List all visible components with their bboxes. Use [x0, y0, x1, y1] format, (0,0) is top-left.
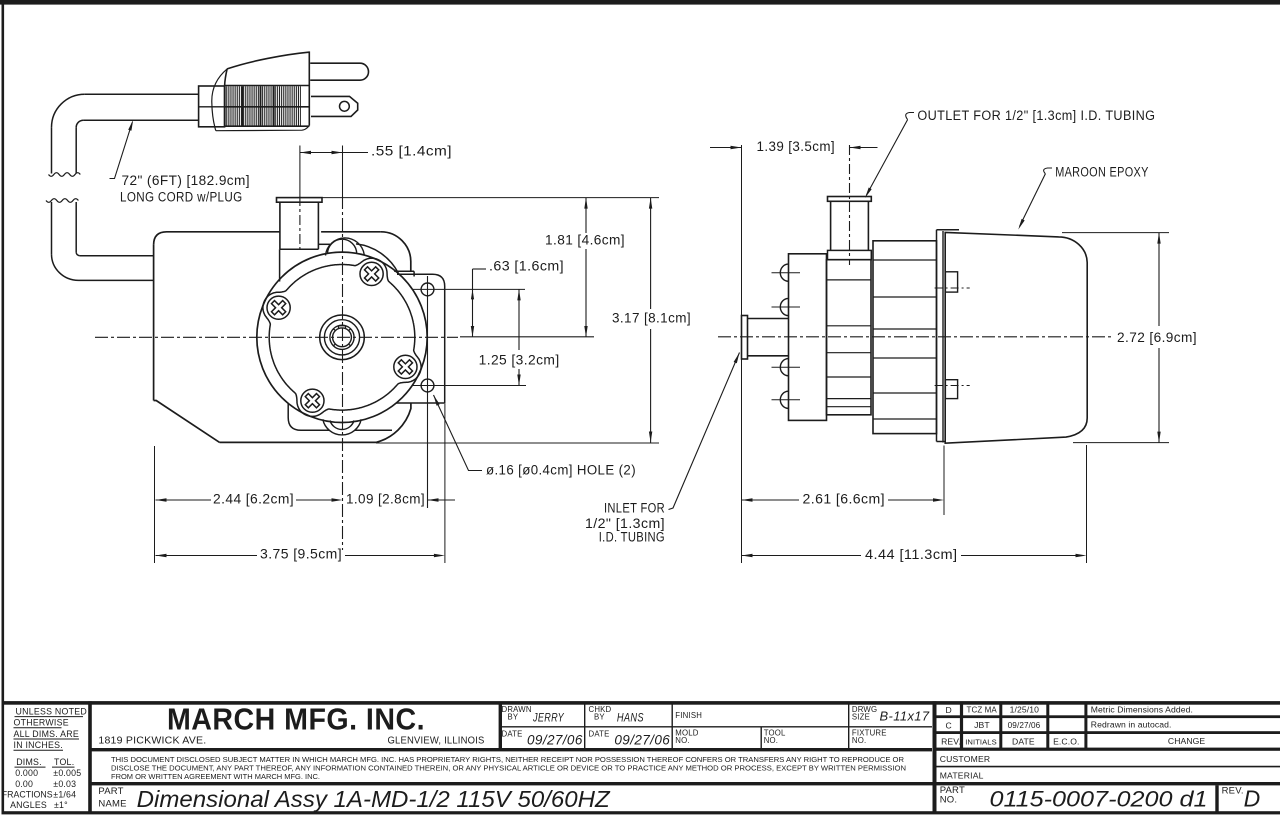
svg-text:GLENVIEW, ILLINOIS: GLENVIEW, ILLINOIS	[388, 736, 485, 747]
port centerline side	[849, 145, 851, 265]
svg-text:BY: BY	[508, 712, 519, 721]
rear pump housing edges	[279, 249, 281, 281]
svg-text:JERRY: JERRY	[532, 713, 565, 725]
dimension 1.25 line	[518, 289, 520, 350]
screw 3	[301, 389, 324, 412]
pump motor body front outline	[154, 232, 280, 245]
dimension .55 line	[300, 152, 343, 154]
extension housing bottom	[1073, 442, 1169, 444]
epoxy housing side	[945, 232, 1087, 443]
svg-text:0.000: 0.000	[15, 768, 38, 778]
bearing boss arcs bottom	[323, 419, 361, 435]
svg-text:INITIALS: INITIALS	[965, 737, 997, 746]
pump mid section side	[827, 260, 872, 415]
extension port top	[322, 197, 659, 199]
bearing boss arcs top	[326, 238, 365, 256]
power plug	[199, 86, 225, 127]
wire cord upper segment	[85, 93, 199, 95]
svg-text:TOL.: TOL.	[54, 757, 74, 767]
svg-text:MAROON EPOXY: MAROON EPOXY	[1055, 165, 1149, 180]
svg-text:±0.03: ±0.03	[53, 779, 76, 789]
screw 1	[360, 262, 383, 285]
svg-text:72" (6FT) [182.9cm]: 72" (6FT) [182.9cm]	[122, 173, 251, 188]
svg-text:UNLESS NOTED: UNLESS NOTED	[16, 707, 87, 717]
svg-text:09/27/06: 09/27/06	[527, 733, 583, 748]
leader inlet	[669, 353, 740, 510]
extension body bottom	[376, 442, 659, 444]
drawing border left	[2, 0, 5, 814]
extension housing top	[1062, 232, 1169, 234]
dimension 2.72 line	[1158, 233, 1160, 326]
svg-text:HANS: HANS	[617, 713, 644, 725]
svg-text:REV.: REV.	[1222, 786, 1244, 797]
extension hole top line	[413, 288, 525, 290]
leader hole dia	[434, 395, 483, 471]
svg-text:09/27/06: 09/27/06	[1008, 721, 1041, 730]
dimension 1.09 line	[428, 498, 439, 501]
centerline horizontal side	[718, 336, 1112, 338]
svg-text:DIMS.: DIMS.	[16, 757, 42, 767]
svg-text:D: D	[1244, 786, 1261, 812]
svg-text:FINISH: FINISH	[675, 711, 702, 720]
svg-text:FROM OR WRITTEN AGREEMENT WITH: FROM OR WRITTEN AGREEMENT WITH MARCH MFG…	[111, 772, 320, 781]
svg-text:PART: PART	[98, 786, 123, 797]
mounting hole top	[421, 283, 434, 296]
outlet port side view	[828, 250, 872, 259]
svg-text:Dimensional Assy 1A-MD-1/2: Dimensional Assy 1A-MD-1/2 115V 50/60HZ	[137, 786, 612, 812]
volute wavy contour	[263, 258, 421, 416]
hole centerline vertical	[427, 276, 429, 508]
shaft hub	[320, 315, 365, 360]
rev table grid	[935, 715, 1280, 718]
svg-text:ALL DIMS. ARE: ALL DIMS. ARE	[14, 729, 80, 739]
svg-text:1/25/10: 1/25/10	[1010, 705, 1039, 715]
svg-text:3.75 [9.5cm]: 3.75 [9.5cm]	[260, 547, 342, 562]
svg-text:MATERIAL: MATERIAL	[940, 771, 984, 781]
drawing border top	[0, 0, 1280, 5]
svg-text:0.00: 0.00	[15, 779, 33, 789]
svg-text:I.D. TUBING: I.D. TUBING	[599, 530, 665, 545]
centerline horizontal front	[95, 336, 458, 338]
svg-text:1.81 [4.6cm]: 1.81 [4.6cm]	[545, 233, 625, 248]
extension left lower	[154, 446, 156, 563]
dimension 2.61 line	[742, 498, 753, 501]
mounting tabs side	[945, 272, 957, 292]
svg-text:DATE: DATE	[502, 730, 523, 739]
dimension 4.44 line	[742, 554, 753, 557]
svg-text:LONG CORD w/PLUG: LONG CORD w/PLUG	[120, 190, 243, 205]
cord break squiggle lower	[46, 199, 78, 203]
motor stator section side	[873, 241, 937, 434]
volute scroll arc	[356, 244, 398, 273]
svg-text:Metric Dimensions Added.: Metric Dimensions Added.	[1091, 704, 1193, 714]
mounting plate	[396, 274, 445, 403]
svg-text:IN INCHES.: IN INCHES.	[14, 740, 63, 750]
dimension 3.75 line	[156, 554, 167, 557]
dimension 3.17 line	[650, 198, 652, 309]
title cells grid	[499, 703, 502, 748]
dimension 1.81 line	[585, 198, 587, 233]
svg-text:NO.: NO.	[675, 736, 689, 745]
svg-text:2.61 [6.6cm]: 2.61 [6.6cm]	[803, 492, 886, 507]
svg-text:JBT: JBT	[974, 720, 990, 730]
svg-text:FRACTIONS: FRACTIONS	[2, 790, 53, 800]
svg-text:2.72 [6.9cm]: 2.72 [6.9cm]	[1117, 330, 1197, 345]
svg-text:DATE: DATE	[589, 730, 610, 739]
leader cord length	[110, 123, 133, 179]
svg-text:09/27/06: 09/27/06	[614, 733, 670, 748]
svg-text:E.C.O.: E.C.O.	[1053, 736, 1079, 746]
extension plate right lower	[444, 404, 446, 563]
svg-text:.63 [1.6cm]: .63 [1.6cm]	[489, 259, 564, 274]
outlet port front view	[277, 198, 323, 203]
volute outer circle	[257, 252, 427, 422]
leader maroon	[1044, 168, 1052, 174]
mounting hole bottom	[421, 379, 434, 392]
svg-text:0115-0007-0200 d1: 0115-0007-0200 d1	[990, 787, 1208, 812]
svg-text:OTHERWISE: OTHERWISE	[14, 718, 69, 728]
motor flange side	[937, 229, 960, 231]
svg-text:BY: BY	[594, 712, 605, 721]
svg-text:OUTLET FOR 1/2" [1.3cm] I.: OUTLET FOR 1/2" [1.3cm] I.D. TUBING	[917, 108, 1155, 123]
svg-text:1.39 [3.5cm]: 1.39 [3.5cm]	[757, 139, 836, 154]
svg-text:Redrawn in autocad.: Redrawn in autocad.	[1091, 720, 1172, 730]
dimension 2.44 line	[156, 498, 167, 501]
dimension .63 line	[472, 269, 474, 337]
svg-text:MARCH MFG. INC.: MARCH MFG. INC.	[167, 703, 425, 737]
svg-text:NO.: NO.	[940, 795, 958, 806]
svg-text:±1/64: ±1/64	[53, 790, 76, 800]
svg-text:SIZE: SIZE	[852, 712, 870, 721]
pump front plate side	[789, 254, 827, 421]
svg-text:NAME: NAME	[98, 799, 126, 810]
svg-text:ø.16 [ø0.4cm] HOLE (2): ø.16 [ø0.4cm] HOLE (2)	[486, 463, 636, 478]
svg-text:1.25 [3.2cm]: 1.25 [3.2cm]	[479, 353, 560, 368]
inlet port side view	[742, 316, 748, 360]
svg-text:NO.: NO.	[852, 736, 866, 745]
dimension 1.39 line	[710, 147, 742, 149]
svg-text:2.44 [6.2cm]: 2.44 [6.2cm]	[213, 492, 294, 507]
title block frame	[2, 701, 1280, 705]
svg-text:B-11x17: B-11x17	[880, 709, 930, 724]
svg-text:TCZ MA: TCZ MA	[967, 706, 998, 715]
svg-text:REV.: REV.	[941, 736, 961, 746]
leader outlet	[906, 113, 914, 120]
svg-text:4.44 [11.3cm]: 4.44 [11.3cm]	[865, 547, 958, 562]
wire cord lower segment	[51, 202, 53, 254]
customer material grid	[935, 766, 1280, 768]
screw 2	[394, 355, 417, 378]
centerline vertical front	[342, 146, 344, 197]
svg-text:±1°: ±1°	[54, 800, 68, 810]
extension hole bottom line	[413, 385, 526, 387]
svg-text:ANGLES: ANGLES	[10, 800, 47, 810]
svg-text:3.17 [8.1cm]: 3.17 [8.1cm]	[612, 311, 691, 326]
svg-text:INLET FOR: INLET FOR	[604, 501, 665, 516]
svg-text:DATE: DATE	[1012, 736, 1035, 746]
svg-text:NO.: NO.	[764, 736, 778, 745]
svg-text:D: D	[945, 705, 951, 715]
extension side left	[741, 145, 743, 563]
rear housing step right of port	[318, 243, 330, 245]
svg-text:.55 [1.4cm]: .55 [1.4cm]	[371, 144, 452, 159]
svg-text:CUSTOMER: CUSTOMER	[940, 754, 991, 764]
cord break squiggle upper	[49, 173, 81, 177]
screw 4	[267, 296, 290, 319]
port centerline front	[299, 146, 301, 197]
svg-text:C: C	[945, 720, 951, 730]
extension housing right lower	[1086, 445, 1088, 563]
svg-text:1819 PICKWICK AVE.: 1819 PICKWICK AVE.	[98, 736, 206, 747]
centerline horizontal ext63	[460, 336, 594, 338]
svg-text:±0.005: ±0.005	[53, 768, 81, 778]
svg-text:1.09 [2.8cm]: 1.09 [2.8cm]	[346, 492, 425, 507]
svg-text:CHANGE: CHANGE	[1168, 736, 1206, 746]
extension housing left lower	[943, 446, 945, 516]
